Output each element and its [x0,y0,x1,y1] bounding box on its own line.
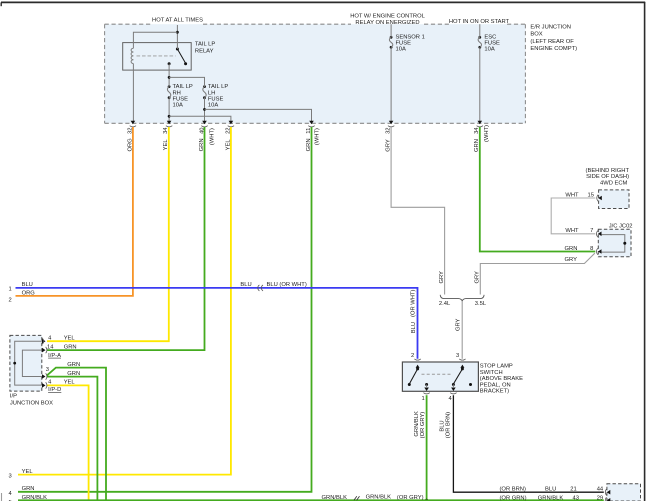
wire LH fuse branch to pin 11 [203,108,311,123]
svg-text:2: 2 [411,353,414,359]
svg-text:GRN: GRN [474,139,480,152]
I/P junction box [10,335,42,391]
wire color label BLU (OR WHT) vertical [411,290,418,334]
svg-text:HOT IN ON OR START: HOT IN ON OR START [449,19,510,25]
svg-text:(OR BRN): (OR BRN) [500,486,526,492]
wire GRY brace to stop lamp switch pin 3 [461,301,463,359]
stop lamp switch pin 2 entry arrow [414,359,420,368]
svg-text:I/P: I/P [10,394,17,400]
I/P junction box internal bus [13,341,42,385]
svg-text:TAIL LP: TAIL LP [173,84,193,90]
svg-text:(OR BRN): (OR BRN) [446,412,452,438]
svg-text:32: 32 [386,127,392,133]
svg-text:I/P-D: I/P-D [48,387,61,393]
svg-text:40: 40 [199,127,205,133]
J/C JC02 pin 8 connector arrow [596,248,601,254]
stop lamp switch contacts [408,367,472,386]
inline connector on BLU wire [258,285,263,291]
connector pin 40 exit arrow [201,121,207,127]
svg-text:TAIL LP: TAIL LP [208,84,228,90]
junction connector J/C JC02 [598,224,632,257]
junction dot GRN/BLK [425,499,428,501]
connector pin 22 exit arrow [228,121,234,127]
svg-text:RH: RH [173,90,181,96]
stop lamp switch pin 4 exit arrow [450,385,456,394]
rear connector pin 29 arrow [605,497,610,501]
svg-text:10A: 10A [484,46,494,52]
wire RH fuse to pin 34 [168,98,170,123]
svg-text:ORG: ORG [22,290,36,296]
wire GRN/BLK bottom run left edge pin 5 to rear connector pin 29 [18,499,604,501]
J/C JC02 internal bus [601,235,627,253]
svg-text:14: 14 [47,344,54,350]
svg-text:YEL: YEL [64,380,76,386]
svg-text:34: 34 [474,127,480,134]
svg-text:(LEFT REAR OF: (LEFT REAR OF [530,39,574,45]
label STOP LAMP SWITCH (ABOVE BRAKE PEDAL, ON BRACKET) [480,364,523,395]
stop lamp switch pin 1 exit arrow [423,385,429,394]
wire BLU left edge pin 1 to stop lamp switch pin 2 [16,288,418,359]
I/P-D pin 3 connector arrow [42,373,47,379]
svg-text:WHT: WHT [565,192,579,198]
fuse ESC 10A [478,35,500,53]
svg-text:32: 32 [127,127,133,133]
wire GRN pin 11 to left edge pin 4 [18,127,312,492]
svg-text:(BEHIND RIGHT: (BEHIND RIGHT [586,168,630,174]
wire relay output to fuses [168,64,205,87]
stop lamp switch pin 3 entry arrow [459,359,465,368]
partial wire stub bottom left [1,493,3,501]
wire GRN/BLK stop lamp pin 1 down [426,395,428,500]
svg-text:GRN: GRN [67,371,80,377]
svg-text:21: 21 [570,486,576,492]
svg-text:BLU: BLU [22,282,33,288]
wire RH fuse branch to pin 22 [168,115,231,123]
svg-text:LH: LH [208,90,215,96]
wire ESC fuse column [479,24,481,122]
svg-text:(WHT): (WHT) [315,128,321,145]
svg-text:SIDE OF DASH): SIDE OF DASH) [586,174,629,180]
svg-text:GRN: GRN [199,138,205,151]
svg-text:2: 2 [9,298,12,304]
E/R junction box [105,24,526,123]
svg-text:PEDAL, ON: PEDAL, ON [480,382,511,388]
svg-text:22: 22 [225,127,231,133]
svg-text:RELAY ON ENERGIZED: RELAY ON ENERGIZED [355,20,419,26]
wire YEL pin 22 to left edge pin 3 [18,127,231,475]
svg-text:43: 43 [573,495,579,501]
svg-text:E/R JUNCTION: E/R JUNCTION [530,25,571,31]
svg-text:GRN: GRN [306,138,312,151]
svg-text:GRN: GRN [565,246,578,252]
tail lamp relay box [123,42,216,70]
svg-text:BLU: BLU [411,322,417,333]
I/P-D pin 4 connector arrow [42,382,47,388]
svg-text:10A: 10A [396,46,406,52]
svg-text:GRN: GRN [64,344,77,350]
rear connector pin 44 arrow [605,489,610,495]
svg-text:8: 8 [590,246,593,252]
svg-text:GRY: GRY [565,257,578,263]
label E/R JUNCTION BOX (LEFT REAR OF ENGINE COMPT) [530,25,577,53]
svg-text:GRN/BLK: GRN/BLK [538,495,564,501]
wire WHT 4WD ECM pin 15 to J/C JC02 pin 7 [551,198,595,234]
label I/P JUNCTION BOX [10,394,53,407]
svg-text:(OR GRY): (OR GRY) [397,495,424,501]
stop lamp switch box [402,362,478,391]
svg-text:(ABOVE BRAKE: (ABOVE BRAKE [480,376,523,382]
tail lamp relay armature [137,48,188,66]
svg-text:3: 3 [456,353,459,359]
wire color label GRN/BLK (OR GRY) vertical [414,411,426,438]
wire GRN I/P-D pin 3 lower branch [47,377,97,501]
svg-text:GRN: GRN [67,362,80,368]
svg-text:GRN/BLK: GRN/BLK [22,495,48,501]
connector pin 34 exit arrow [166,121,172,127]
brace 2.4L / 3.5L merge [440,295,484,301]
svg-text:1: 1 [9,286,12,292]
svg-text:34: 34 [163,127,169,134]
svg-text:BOX: BOX [530,32,542,38]
wire hot feed to relay [133,25,178,49]
4WD ECM pin 15 connector arrow [597,195,602,201]
wire GRY sensor fuse to 2.4L brace [391,127,445,295]
svg-text:GRY: GRY [386,139,392,152]
connector ESC fuse pin 34 exit arrow [477,121,483,127]
svg-text:BRACKET): BRACKET) [480,389,509,395]
svg-text:3: 3 [9,474,12,480]
svg-text:10A: 10A [208,103,218,109]
page corner tick [0,2,2,6]
connector pin 32 exit arrow [130,121,136,127]
svg-text:STOP LAMP: STOP LAMP [480,364,513,370]
fuse TAIL LP LH 10A [203,84,229,108]
svg-text:TAIL LP: TAIL LP [195,42,215,48]
svg-text:11: 11 [306,128,312,134]
svg-text:10A: 10A [173,103,183,109]
svg-text:15: 15 [588,192,594,198]
svg-text:2.4L: 2.4L [439,301,451,307]
J/C JC02 pin 7 connector arrow [596,231,601,237]
svg-text:(OR GRY): (OR GRY) [420,412,426,439]
svg-text:SWITCH: SWITCH [480,370,503,376]
svg-text:BLU: BLU [240,282,251,288]
wire YEL pin 34 to I/P-A pin 4 [47,127,169,341]
svg-text:GRY: GRY [475,271,481,284]
svg-text:4WD ECM: 4WD ECM [600,180,628,186]
wire break symbol on GRN/BLK run [354,496,360,500]
wire GRN I/P-D pin 3 upper branch [47,368,106,501]
svg-text:J/C JC02: J/C JC02 [609,224,633,230]
svg-text:(OR GRN): (OR GRN) [500,495,527,501]
label 4WD ECM (BEHIND RIGHT SIDE OF DASH) [586,168,630,186]
svg-text:3.5L: 3.5L [475,301,487,307]
svg-text:(WHT): (WHT) [484,125,490,142]
svg-text:(OR WHT): (OR WHT) [411,290,417,317]
wire LH fuse to pin 40 [204,98,206,123]
svg-text:ORG: ORG [127,138,133,152]
svg-text:HOT W/ ENGINE CONTROL: HOT W/ ENGINE CONTROL [350,13,425,19]
svg-text:GRY: GRY [455,318,461,331]
wire relay coil to pin 32 [132,64,134,123]
svg-text:7: 7 [590,228,593,234]
wire GRN pin 40 to I/P-A pin 14 [47,127,205,350]
svg-text:YEL: YEL [64,336,76,342]
fuse SENSOR 1 10A [389,35,424,53]
svg-text:FUSE: FUSE [173,96,189,102]
wire GRY J/C JC02 pin 8 to 3.5L brace [480,253,595,294]
svg-text:YEL: YEL [22,469,34,475]
svg-text:1: 1 [422,396,425,402]
I/P-A pin 4 connector arrow [41,338,45,344]
svg-text:RELAY: RELAY [195,49,214,55]
wire BLU stop lamp pin 4 to rear connector pin 44 [453,395,603,492]
svg-text:3: 3 [46,367,49,373]
svg-text:WHT: WHT [565,228,579,234]
svg-text:(WHT): (WHT) [210,128,216,145]
svg-text:YEL: YEL [225,139,231,151]
tail lamp relay coil [131,48,133,63]
wire sensor 1 fuse column [390,24,392,122]
wire color label BLU (OR BRN) vertical [440,412,452,438]
svg-text:HOT AT ALL TIMES: HOT AT ALL TIMES [152,17,203,23]
svg-text:YEL: YEL [163,139,169,151]
rear harness connector box (bottom right) [607,484,641,501]
svg-text:ENGINE COMPT): ENGINE COMPT) [530,46,577,52]
node HOT W/ ENGINE CONTROL RELAY ON ENERGIZED [350,13,425,26]
svg-text:I/P-A: I/P-A [48,353,61,359]
svg-text:BLU (OR WHT): BLU (OR WHT) [267,282,307,288]
svg-text:JUNCTION BOX: JUNCTION BOX [10,401,53,407]
svg-text:GRN: GRN [22,486,35,492]
svg-text:FUSE: FUSE [208,96,224,102]
svg-text:44: 44 [597,486,604,492]
svg-text:BLU: BLU [545,486,556,492]
svg-text:GRN/BLK: GRN/BLK [366,494,392,500]
I/P-A pin 14 connector arrow [42,347,47,353]
fuse TAIL LP RH 10A [167,84,193,108]
4WD ECM connector box [599,190,629,209]
svg-text:GRY: GRY [439,271,445,284]
connector pin 11 exit arrow [308,121,314,127]
svg-text:29: 29 [597,495,603,501]
wire ORG pin 32 to left edge pin 2 [16,127,133,296]
connector sensor fuse pin 32 exit arrow [388,121,394,127]
wire GRN ESC fuse to J/C JC02 pin 8 [480,127,596,252]
svg-text:GRN/BLK: GRN/BLK [322,495,348,501]
wire YEL I/P-D pin 4 [47,385,89,501]
